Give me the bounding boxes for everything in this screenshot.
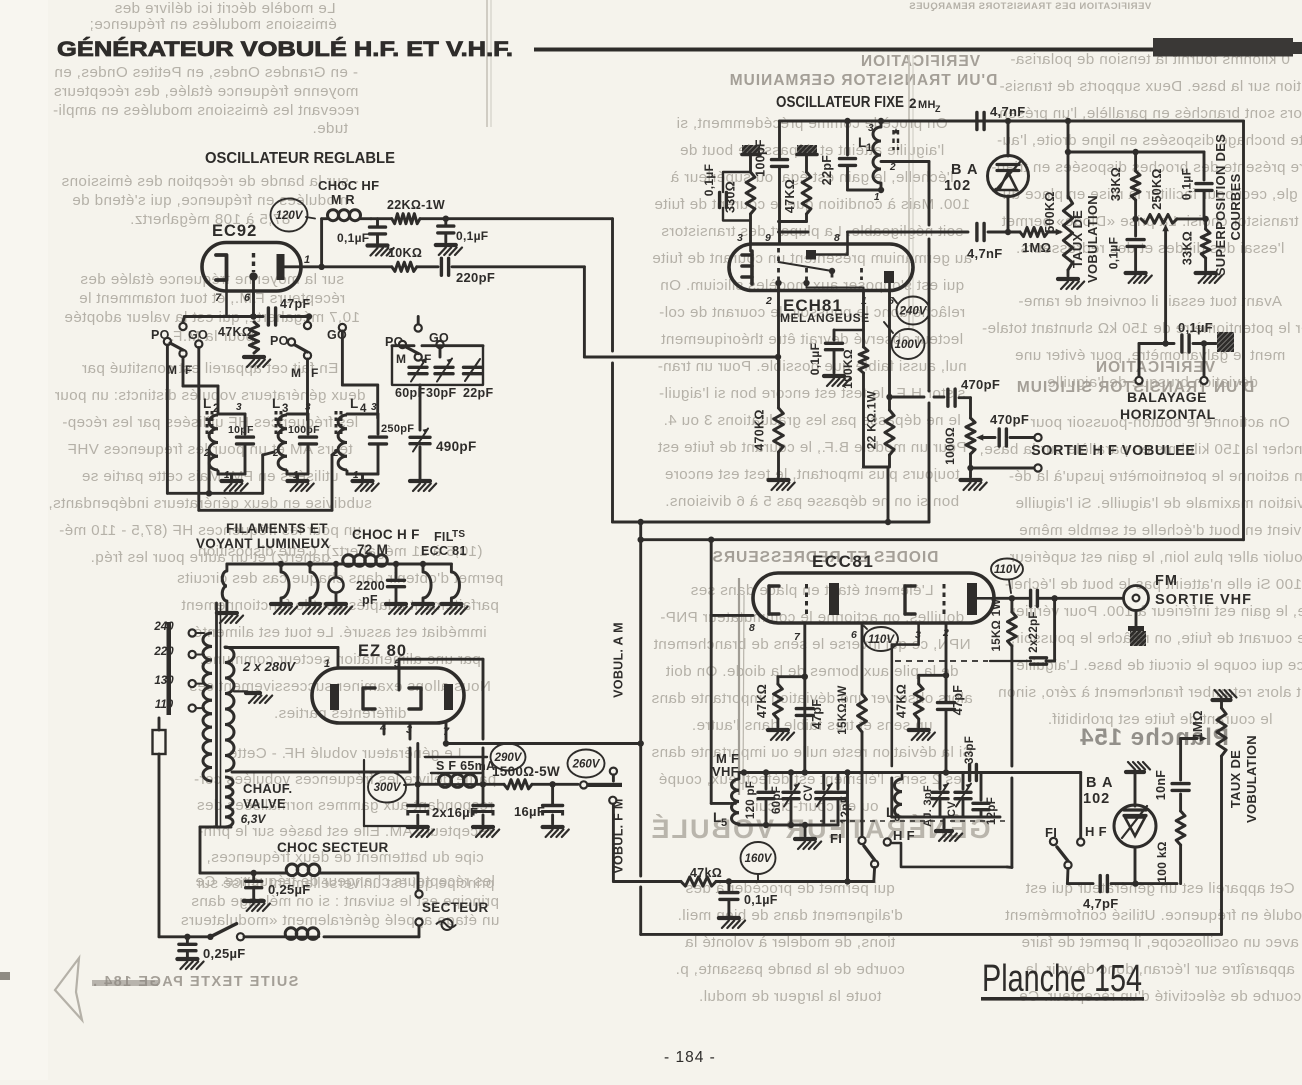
svg-text:3: 3 bbox=[371, 402, 377, 413]
svg-text:tions, de modeler à volont: tions, de modeler à volonté la bbox=[685, 934, 896, 951]
svg-text:Pour un modèle B.F., le c: Pour un modèle B.F., le courant de fuite… bbox=[657, 439, 966, 456]
tap 240 bbox=[153, 621, 204, 637]
svg-text:220: 220 bbox=[153, 646, 174, 658]
label secteur bbox=[422, 900, 489, 915]
resistor 47kohm ecc b bbox=[895, 675, 947, 740]
inductor choc HF bbox=[328, 210, 372, 221]
capacitor 100pF bbox=[754, 139, 788, 244]
svg-text:VOBULATION: VOBULATION bbox=[1244, 735, 1259, 823]
svg-text:2200: 2200 bbox=[356, 579, 385, 593]
svg-text:490pF: 490pF bbox=[436, 439, 477, 454]
filament winding left bbox=[217, 564, 243, 623]
trimmer 490pF bbox=[410, 385, 477, 491]
capacitor 2x22pF b bbox=[990, 598, 1055, 664]
voltage callout 300V bbox=[368, 772, 414, 803]
filament hook 1 bbox=[271, 561, 297, 614]
L5 block right bbox=[822, 824, 825, 827]
resistor 10kohm bbox=[388, 246, 422, 271]
svg-text:16µF: 16µF bbox=[514, 804, 545, 819]
svg-text:290V: 290V bbox=[494, 752, 523, 764]
svg-text:100KΩ: 100KΩ bbox=[841, 349, 855, 389]
wire L2 tap2 bbox=[206, 450, 212, 496]
svg-text:toujours plus important, le: toujours plus important, le test est enc… bbox=[665, 466, 960, 483]
svg-text:100V: 100V bbox=[895, 339, 923, 351]
label FM sortie bbox=[1155, 573, 1252, 608]
EC92 pin 6 bbox=[244, 292, 251, 304]
svg-text:ECC81: ECC81 bbox=[812, 552, 874, 571]
resistor 47kohm fm bbox=[681, 866, 874, 886]
svg-text:PO: PO bbox=[270, 334, 289, 348]
capacitor 470pF b bbox=[984, 412, 1042, 446]
svg-text:6: 6 bbox=[851, 629, 857, 641]
switch B PO-GO bbox=[270, 317, 347, 381]
inductor choc 72M bbox=[343, 555, 389, 567]
svg-text:500KΩ: 500KΩ bbox=[1043, 191, 1057, 232]
svg-text:pF: pF bbox=[362, 593, 378, 607]
label chauf valve bbox=[241, 781, 293, 826]
svg-text:0,1µF: 0,1µF bbox=[744, 893, 778, 907]
svg-text:47KΩ: 47KΩ bbox=[218, 325, 252, 339]
svg-text:les récepteurs changeur de: les récepteurs changeur de fréquence. Ce bbox=[195, 873, 495, 890]
fuse SF 65mA bbox=[425, 757, 495, 773]
ECH81 pin9 label bbox=[765, 232, 771, 244]
wire top HT bbox=[780, 121, 1244, 159]
wire switch A M down bbox=[183, 357, 218, 413]
wire bottom bus bbox=[641, 933, 1222, 936]
svg-text:MH: MH bbox=[918, 99, 936, 111]
inductor L5 bbox=[713, 773, 739, 830]
svg-text:HORIZONTAL: HORIZONTAL bbox=[1120, 406, 1216, 422]
wire switch B down bbox=[306, 359, 309, 420]
wire choke feed bbox=[322, 217, 327, 220]
label vobul am bbox=[612, 622, 626, 698]
EZ80 cathode 1 bbox=[363, 688, 375, 709]
resistor 100kohm ech bbox=[841, 347, 888, 467]
svg-text:33KΩ: 33KΩ bbox=[1109, 167, 1123, 201]
ECH81 grid4 bbox=[862, 268, 864, 290]
svg-text:avec un oscilloscope, il p: avec un oscilloscope, il permet de faire bbox=[1021, 934, 1299, 951]
label 2x280V bbox=[242, 659, 296, 674]
label taux de vobulation a bbox=[1070, 195, 1100, 283]
svg-text:15KΩ1W: 15KΩ1W bbox=[837, 685, 849, 734]
mains switch bbox=[207, 924, 285, 941]
svg-text:F: F bbox=[185, 363, 193, 377]
voltage callout 110V a bbox=[864, 626, 898, 651]
resistor 1500ohm 5W bbox=[483, 764, 578, 789]
EZ80 anode 2 bbox=[444, 684, 453, 710]
svg-text:47KΩ: 47KΩ bbox=[755, 684, 769, 718]
svg-text:SECTEUR: SECTEUR bbox=[422, 900, 489, 915]
capacitor 47pF bbox=[268, 297, 310, 325]
svg-text:9: 9 bbox=[765, 232, 771, 244]
ECH81 grid2 bbox=[775, 268, 781, 290]
svg-text:SORTIE H F VOBULEE: SORTIE H F VOBULEE bbox=[1031, 443, 1196, 459]
svg-text:120V: 120V bbox=[276, 210, 304, 222]
svg-text:F: F bbox=[311, 366, 319, 380]
svg-text:0,25µF: 0,25µF bbox=[203, 946, 246, 961]
svg-text:240: 240 bbox=[153, 621, 174, 633]
svg-text:toute la largeur de mo: toute la largeur de modul. bbox=[699, 988, 882, 1005]
svg-text:0,1µF: 0,1µF bbox=[1180, 168, 1194, 200]
capacitor 2x22pF a bbox=[1031, 590, 1038, 606]
svg-text:VERIFICATION DES TRANSISTORS: VERIFICATION DES TRANSISTORS REMARQUES bbox=[909, 1, 1151, 12]
svg-text:102: 102 bbox=[1083, 791, 1110, 807]
coil L2 tank 10pF bbox=[203, 396, 254, 491]
svg-text:3: 3 bbox=[236, 402, 242, 413]
svg-text:te brochage disposées en l: te brochage disposées en ligne droite, l… bbox=[997, 132, 1302, 149]
capacitor 0.1uF sup a bbox=[1180, 152, 1213, 219]
svg-text:bon si on ne dépasse pas: bon si on ne dépasse pas 5 à 6 divisions… bbox=[665, 493, 959, 510]
capacitor 16uF c bbox=[514, 784, 569, 837]
svg-text:1: 1 bbox=[304, 254, 310, 266]
svg-text:Planche 154: Planche 154 bbox=[982, 958, 1142, 1000]
tube EC92 bbox=[202, 222, 301, 291]
ECC81 pin8 bbox=[711, 540, 755, 804]
svg-text:H F: H F bbox=[893, 828, 915, 843]
svg-text:CHOC H F: CHOC H F bbox=[352, 527, 420, 542]
ECH81 pin3 label bbox=[737, 232, 743, 244]
transformer primary bbox=[203, 633, 212, 781]
secteur upper terminal bbox=[415, 873, 422, 898]
svg-text:22 KΩ.1W: 22 KΩ.1W bbox=[865, 390, 879, 449]
svg-text:CHOC SECTEUR: CHOC SECTEUR bbox=[277, 840, 389, 855]
wire vobul am line bbox=[638, 519, 644, 935]
inductor L6 bbox=[886, 773, 902, 825]
svg-text:CHOC HF: CHOC HF bbox=[318, 178, 379, 193]
transformer HV secondary bbox=[225, 647, 234, 771]
svg-text:d'alignement dans de bien: d'alignement dans de bien meil. bbox=[677, 907, 903, 924]
label MF VHF bbox=[712, 751, 739, 779]
switch B GO contact bbox=[339, 324, 378, 418]
svg-text:Z: Z bbox=[935, 104, 941, 114]
ECC81 anode 2 bbox=[967, 583, 994, 615]
fuse secteur bbox=[153, 718, 166, 937]
voltage callout 160V bbox=[741, 842, 776, 880]
filament hook 2 bbox=[300, 561, 326, 614]
balayage terminals bbox=[1135, 344, 1207, 385]
svg-text:sistor H.F., le test est: sistor H.F., le test est encore bon si l… bbox=[659, 385, 966, 402]
svg-text:TAUX DE: TAUX DE bbox=[1228, 750, 1243, 808]
svg-text:0,1µF: 0,1µF bbox=[702, 164, 716, 196]
svg-text:10KΩ: 10KΩ bbox=[388, 246, 422, 260]
wire 220pF to ECH81 grid bbox=[584, 267, 781, 360]
svg-text:1: 1 bbox=[866, 142, 872, 154]
mech gang dashed bbox=[820, 820, 1008, 822]
svg-text:300V: 300V bbox=[374, 782, 402, 794]
ECC81 pin6 bbox=[851, 623, 862, 694]
ECH81 pin6 bbox=[886, 290, 894, 400]
L5 top bus bbox=[739, 769, 966, 775]
svg-text:470KΩ: 470KΩ bbox=[753, 409, 767, 450]
svg-text:tude.: tude. bbox=[312, 120, 348, 137]
svg-text:Le générateur vobulé HF.: Le générateur vobulé HF. - Cette bbox=[228, 745, 461, 762]
EZ80 pin 4 bbox=[379, 722, 386, 734]
filament hook 4 bbox=[441, 564, 467, 614]
coil L4 tank 250pF bbox=[332, 396, 414, 491]
svg-text:SORTIE VHF: SORTIE VHF bbox=[1155, 592, 1252, 608]
filament bus wire bbox=[227, 563, 452, 566]
resistor 22kohm 1W bbox=[371, 198, 613, 224]
svg-text:260V: 260V bbox=[572, 759, 601, 771]
tap 220 bbox=[153, 646, 204, 658]
ECC81 pin1 wire bbox=[994, 595, 1123, 601]
potentiometer 500kohm bbox=[1043, 191, 1084, 289]
capacitor 0.1uF sup b bbox=[1107, 219, 1152, 283]
svg-text:60pF: 60pF bbox=[771, 786, 783, 814]
svg-text:7: 7 bbox=[794, 631, 801, 643]
svg-text:100 kΩ: 100 kΩ bbox=[1155, 841, 1169, 883]
trimmer AJ 3pF bbox=[922, 773, 948, 827]
svg-text:22KΩ-1W: 22KΩ-1W bbox=[387, 198, 445, 212]
svg-text:110V: 110V bbox=[994, 564, 1021, 576]
tube ECC81 bbox=[753, 552, 994, 623]
capacitor 4.7nF b label bbox=[967, 246, 1002, 261]
label oscillateur reglable bbox=[205, 150, 395, 167]
trimmer CV a bbox=[803, 773, 832, 826]
wire cathode-grid bus bbox=[184, 313, 312, 319]
trimmer 60pF bbox=[395, 359, 427, 401]
inductor choc secteur lower bbox=[285, 928, 319, 940]
label fil ecc81 bbox=[421, 529, 467, 558]
EZ80 center lead bbox=[398, 668, 401, 690]
label vobul fm bbox=[612, 798, 626, 873]
L5 ground bbox=[795, 825, 821, 849]
capacitor 4.7pF bbox=[1083, 876, 1136, 911]
svg-text:tors sont branchés en parallèl: tors sont branchés en parallèle, l'un pr… bbox=[993, 105, 1302, 122]
svg-text:87,5 à 108 mégahertz.: 87,5 à 108 mégahertz. bbox=[130, 211, 290, 228]
voltage callout 110V b bbox=[991, 559, 1023, 594]
svg-text:tion sur la base. Deux su: tion sur la base. Deux supports de trans… bbox=[999, 78, 1301, 95]
svg-text:1000Ω: 1000Ω bbox=[943, 427, 957, 465]
svg-text:4,7nF: 4,7nF bbox=[990, 104, 1025, 119]
header black bar bbox=[1153, 38, 1302, 57]
svg-text:0,1µF: 0,1µF bbox=[808, 343, 822, 375]
svg-text:L'élément étant en place: L'élément étant en place dans ses bbox=[690, 582, 933, 599]
svg-text:Planche 154: Planche 154 bbox=[1079, 724, 1229, 751]
label taux vobulation b bbox=[1228, 735, 1259, 823]
capacitor 2200pF bbox=[356, 561, 412, 614]
svg-text:FM: FM bbox=[1155, 573, 1178, 589]
resistor 33kohm a bbox=[1109, 152, 1140, 222]
svg-text:FI: FI bbox=[830, 831, 842, 846]
svg-text:0,1µF: 0,1µF bbox=[1107, 237, 1121, 269]
svg-text:courbe de la bande passante: courbe de la bande passante, p. bbox=[675, 961, 904, 978]
svg-text:L: L bbox=[203, 396, 212, 411]
capacitor 0.1uF osc B bbox=[436, 219, 489, 255]
svg-text:240V: 240V bbox=[899, 306, 928, 318]
svg-text:- sur la bande de réception de: - sur la bande de réception des émission… bbox=[61, 173, 359, 190]
inductor choc secteur upper bbox=[200, 864, 418, 876]
svg-text:10pF: 10pF bbox=[228, 424, 254, 436]
capacitor 12pF b bbox=[973, 773, 998, 826]
svg-text:TS: TS bbox=[452, 529, 465, 540]
svg-text:1MΩ: 1MΩ bbox=[1190, 710, 1205, 739]
switch FI-HF a bbox=[858, 828, 1007, 882]
svg-text:1MΩ: 1MΩ bbox=[1022, 240, 1051, 255]
resistor 47kohm ecc a bbox=[755, 677, 805, 740]
wire PO bus bbox=[167, 452, 274, 493]
ECC81 grid 2 bbox=[943, 584, 946, 614]
junction bbox=[443, 216, 449, 222]
wire plate riser bbox=[320, 219, 323, 267]
ECC81 pin2 bbox=[942, 623, 949, 776]
svg-text:2x16µF: 2x16µF bbox=[432, 805, 478, 820]
wire HT bus bbox=[613, 239, 930, 525]
svg-text:100pF: 100pF bbox=[288, 424, 320, 436]
tube ECH81 bbox=[729, 244, 913, 325]
capacitor 4.7nF a bbox=[972, 104, 1025, 130]
wire HT riser bbox=[611, 219, 614, 522]
resistor 47kohm grid bbox=[218, 322, 270, 367]
svg-text:modulé en fréquence. Utilis: modulé en fréquence. Utilisé conformémen… bbox=[1005, 907, 1302, 924]
label planche 154 bbox=[981, 958, 1144, 1001]
trimmer 30pF bbox=[426, 359, 456, 401]
tap 110 bbox=[155, 699, 204, 712]
capacitor 0.1uF osc A bbox=[337, 219, 394, 256]
capacitor 10nF bbox=[1154, 735, 1207, 811]
svg-text:8: 8 bbox=[749, 622, 755, 634]
svg-text:0,1µF: 0,1µF bbox=[1178, 320, 1213, 335]
switch C trimmer bank bbox=[385, 317, 449, 367]
svg-text:GÉNÉRATEUR VOBULÉ H.F. ET V.H.: GÉNÉRATEUR VOBULÉ H.F. ET V.H.F. bbox=[57, 38, 513, 61]
svg-text:Le modèle décrit ici déliv: Le modèle décrit ici délivre des bbox=[114, 0, 335, 17]
svg-text:15KΩ 1W: 15KΩ 1W bbox=[991, 599, 1003, 652]
svg-text:ce qui coupe le circuit d: ce qui coupe le circuit de base. L'aigui… bbox=[1016, 657, 1302, 674]
trimmer 22pF bbox=[463, 359, 493, 400]
voltage callout 120V bbox=[271, 199, 316, 232]
ECC81 cathode 2 bbox=[905, 586, 915, 614]
ECH81 grid3 bbox=[803, 268, 863, 288]
capacitor 22pF fixe bbox=[820, 118, 884, 193]
ECC81 pin7 bbox=[794, 623, 808, 776]
switch A PO-GO bbox=[151, 317, 208, 378]
svg-text:- en Grandes Ondes, en Petites: - en Grandes Ondes, en Petites Ondes, en bbox=[54, 64, 358, 81]
svg-text:1: 1 bbox=[293, 470, 299, 481]
svg-text:250pF: 250pF bbox=[381, 423, 414, 435]
capacitor 470pF a bbox=[948, 377, 1000, 418]
label choc hf 72M bbox=[352, 527, 420, 557]
svg-text:2x22pF: 2x22pF bbox=[1028, 611, 1040, 652]
capacitor 0.25uF upper bbox=[244, 870, 311, 911]
header rule bbox=[534, 48, 1159, 52]
ECH81 cathode bbox=[742, 244, 752, 284]
svg-text:250KΩ: 250KΩ bbox=[1150, 168, 1164, 209]
voltage callout 100V bbox=[884, 322, 925, 359]
resistor 100kohm fm bbox=[1155, 811, 1185, 883]
wire 4.7pF to 100k bbox=[1136, 845, 1181, 884]
svg-text:0,1µF: 0,1µF bbox=[456, 229, 488, 243]
heater return stub bbox=[364, 760, 407, 826]
svg-text:1: 1 bbox=[353, 470, 359, 481]
page title bbox=[57, 38, 513, 61]
trimmer CV b bbox=[946, 773, 971, 818]
svg-text:1: 1 bbox=[324, 658, 330, 670]
capacitor 0.1uF fm bbox=[719, 882, 778, 929]
diode BA102 a bbox=[944, 118, 1029, 232]
svg-text:MELANGEUSE: MELANGEUSE bbox=[780, 311, 870, 325]
trimmer 60pF vhf bbox=[771, 773, 799, 826]
svg-text:1: 1 bbox=[874, 192, 880, 203]
svg-text:M R: M R bbox=[331, 193, 355, 207]
ECH81 pin8 label bbox=[834, 232, 840, 244]
resistor 1Mohm bbox=[1020, 227, 1063, 255]
svg-text:3: 3 bbox=[737, 232, 743, 244]
svg-text:47pF: 47pF bbox=[280, 297, 310, 311]
svg-text:8: 8 bbox=[834, 232, 840, 244]
HV center tap ground bbox=[234, 691, 272, 703]
diode BA102 b bbox=[1083, 762, 1156, 887]
svg-text:immédiat est assuré. Le to: immédiat est assuré. Le tout est aliment… bbox=[193, 624, 486, 641]
label filaments bbox=[196, 521, 330, 551]
svg-text:ner le potentiomètre de 150: ner le potentiomètre de 150 kΩ shuntant … bbox=[982, 320, 1302, 337]
svg-text:EC92: EC92 bbox=[212, 222, 257, 240]
resistor 22kohm 1W ech bbox=[865, 390, 895, 522]
ECH81 anode bus bbox=[848, 224, 1021, 241]
terminal vobul fm - bbox=[609, 797, 681, 882]
wire L1 tap2 bbox=[881, 162, 929, 226]
secteur lower terminal bbox=[324, 918, 423, 936]
svg-text:3: 3 bbox=[868, 123, 874, 134]
svg-text:2 x 280V: 2 x 280V bbox=[242, 659, 296, 674]
svg-text:3: 3 bbox=[305, 402, 311, 413]
capacitor 16uF b bbox=[432, 784, 499, 837]
svg-text:tre présente des broches d: tre présente des broches disposées en tr… bbox=[991, 159, 1302, 176]
wire EZ80 pin5 drop bbox=[482, 659, 485, 784]
svg-text:47KΩ: 47KΩ bbox=[783, 179, 797, 213]
svg-text:2: 2 bbox=[765, 295, 772, 307]
label sortie HF bbox=[1031, 443, 1196, 459]
ECH81 pin2 bbox=[765, 290, 779, 408]
wire plate line bbox=[301, 264, 392, 270]
EC92 pin 1 bbox=[304, 254, 310, 266]
wire switch A PO down bbox=[166, 345, 169, 493]
wire L5 to FI bbox=[846, 773, 849, 882]
svg-text:47KΩ: 47KΩ bbox=[895, 684, 909, 718]
ECC81 pin3 bbox=[892, 623, 921, 817]
resistor 15kohm 1W b bbox=[837, 685, 866, 837]
wire bus 152 bbox=[1065, 118, 1204, 198]
svg-text:viation maximale de l'aigui: viation maximale de l'aiguille. Si l'aig… bbox=[1015, 495, 1302, 512]
svg-text:1: 1 bbox=[224, 470, 230, 481]
svg-text:CHAUF.: CHAUF. bbox=[243, 781, 292, 796]
page number bbox=[664, 1049, 716, 1066]
wire anode to output bbox=[890, 396, 945, 399]
capacitor 47pF b bbox=[938, 685, 966, 715]
wire heater bottom bbox=[200, 827, 231, 873]
sortie ground bbox=[961, 464, 1042, 490]
transformer heater secondary bbox=[225, 777, 233, 827]
capacitor 12pF a bbox=[830, 773, 852, 826]
svg-text:B A: B A bbox=[1086, 775, 1113, 791]
EZ80 anode 1 bbox=[330, 684, 339, 710]
svg-text:différentes parties.: différentes parties. bbox=[274, 705, 407, 722]
svg-text:33pF: 33pF bbox=[964, 736, 976, 764]
svg-text:0,1µF: 0,1µF bbox=[337, 231, 369, 245]
svg-text:CV: CV bbox=[803, 785, 815, 802]
svg-text:120 pF: 120 pF bbox=[745, 781, 757, 819]
svg-text:CV: CV bbox=[946, 801, 958, 817]
wire switch A GO down bbox=[197, 348, 200, 511]
svg-text:H F: H F bbox=[1085, 824, 1107, 839]
svg-text:0,25µF: 0,25µF bbox=[268, 882, 311, 897]
EZ80 cathode 2 bbox=[409, 688, 421, 709]
svg-text:le ne dépasse pas les g: le ne dépasse pas les graduations 3 ou 4… bbox=[663, 412, 961, 429]
svg-text:30pF: 30pF bbox=[426, 386, 456, 400]
svg-text:100pF: 100pF bbox=[754, 139, 768, 177]
svg-text:470pF: 470pF bbox=[990, 412, 1029, 427]
svg-text:VERIFICATION: VERIFICATION bbox=[1095, 359, 1215, 376]
svg-text:160V: 160V bbox=[745, 853, 773, 865]
